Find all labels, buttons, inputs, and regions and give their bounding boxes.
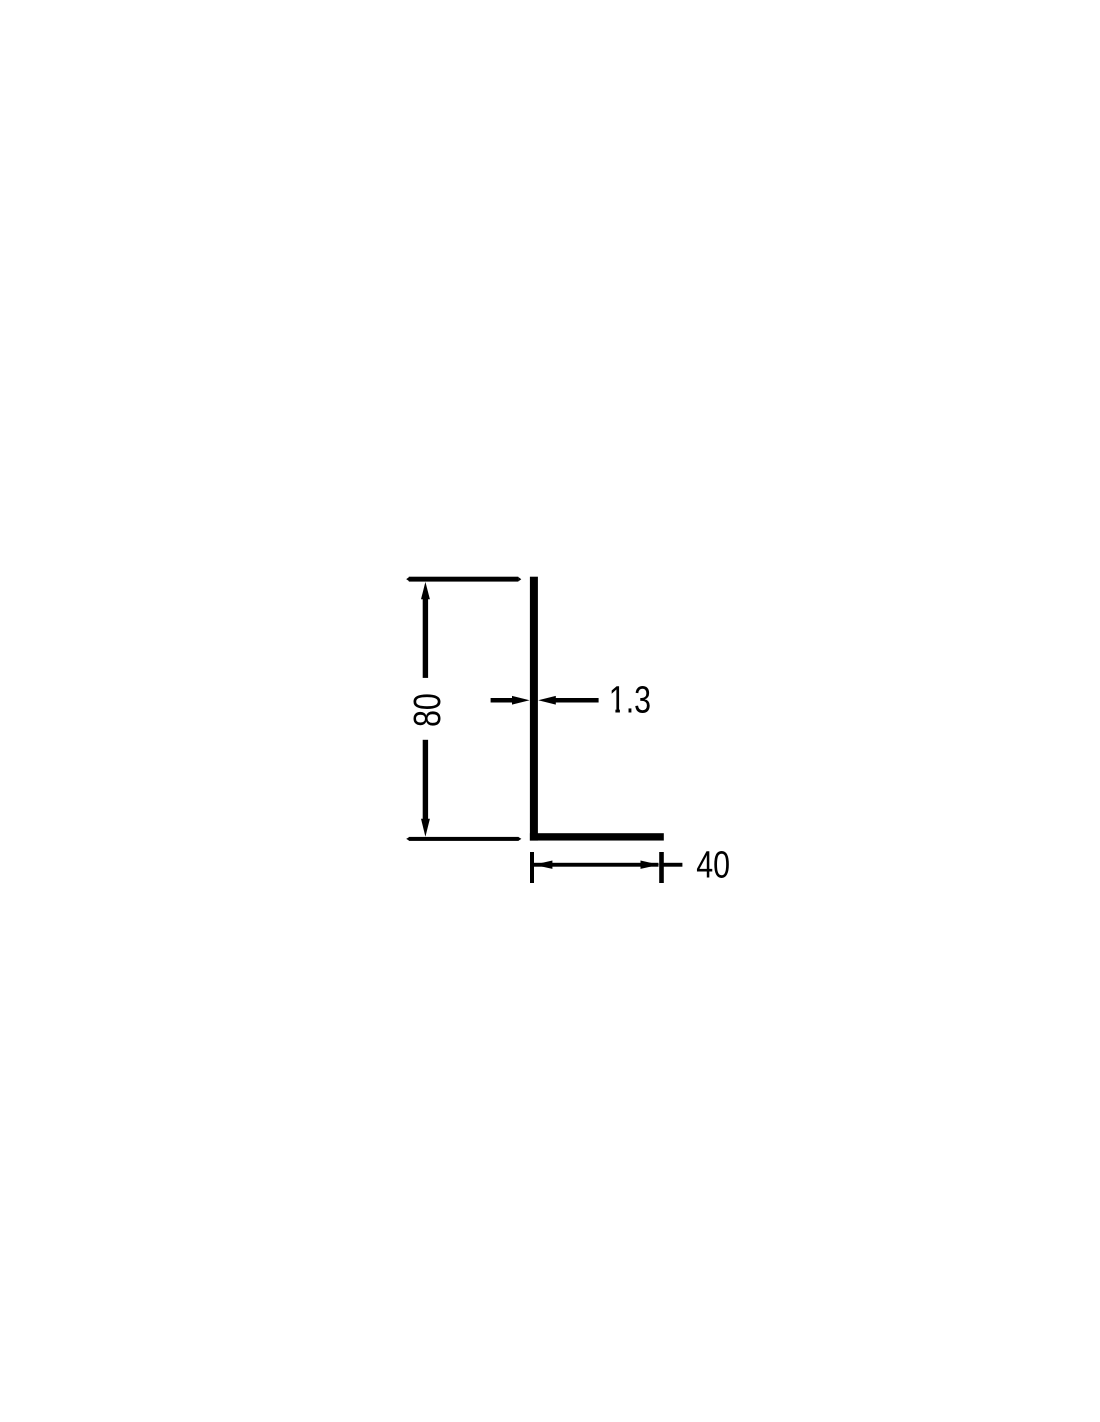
profile horizontal leg (40 mm): [530, 833, 664, 840]
svg-text:80: 80: [407, 693, 449, 727]
leader stub to 40 text: [663, 863, 682, 867]
extension tick right (40 dim): [659, 852, 664, 883]
dimension line 80 upper segment with up arrow: [421, 582, 430, 678]
svg-text:40: 40: [696, 845, 730, 887]
dimension line 80 lower segment with down arrow: [421, 740, 430, 837]
thickness arrow right (1.3 dim): [538, 696, 598, 705]
dimension line 40 with outward arrows: [534, 861, 660, 869]
extension tick left (40 dim): [530, 852, 534, 883]
thickness arrow left (1.3 dim): [491, 696, 530, 705]
profile vertical leg (80 mm): [530, 577, 538, 841]
extension line top (for 80 dim): [406, 577, 521, 582]
svg-text:1.3: 1.3: [609, 680, 651, 722]
extension line bottom (for 80 dim): [406, 837, 521, 841]
